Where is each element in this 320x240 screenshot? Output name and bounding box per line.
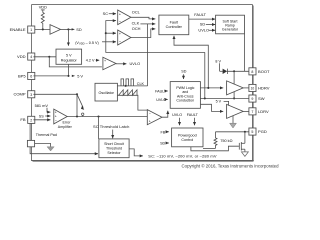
wire FB pin to error amp [33,119,50,121]
5V label to LDRV driver [216,100,229,106]
svg-text:FAULT: FAULT [155,89,167,93]
comparator OCH [118,30,131,45]
LDRV driver [227,104,244,118]
svg-text:Short Circuit: Short Circuit [104,142,124,146]
wire PWM logic to HDRV driver [200,87,223,89]
4.2V threshold label arrow [86,58,99,62]
svg-text:FAULT: FAULT [194,12,206,17]
svg-text:Powergood: Powergood [178,134,197,138]
CLK label wire to fault controller [132,21,156,26]
svg-text:+: + [119,32,121,36]
wire PWM logic to LDRV driver [200,104,223,111]
SC label arrow into OCL [103,11,116,16]
pin 7 LDRV [249,108,269,115]
wire ramp to PWM comparator [117,95,147,110]
pin 10 HDRV [249,84,270,91]
svg-text:4: 4 [30,55,32,59]
pin 4 VDD [17,53,35,60]
FAULT input stub to PWM logic [155,89,168,93]
svg-text:SD: SD [76,27,82,32]
node BOOT [233,70,235,72]
FB net down to selector [30,123,98,154]
UVLO stub into powergood [172,113,182,125]
svg-text:CLK: CLK [137,82,145,86]
svg-text:3: 3 [30,93,32,97]
wire regulator to BP5/5V rail [68,64,70,76]
svg-text:PGD: PGD [258,129,267,134]
SD input stub to PWM logic [181,70,186,79]
node 5V rail [67,75,69,77]
node HDRV fault tap [207,87,209,89]
SC output wire and label [129,149,217,159]
wire error amp output to PWM comparator [67,116,147,118]
svg-text:Amplifier: Amplifier [58,125,73,129]
resistor pull-up on ENABLE [41,13,44,30]
svg-text:FAULT: FAULT [187,113,199,117]
wire HDRV driver to pin [243,87,249,89]
svg-text:UVLO: UVLO [198,28,209,33]
outer border top [32,4,253,6]
pin 6 BP5 [18,72,35,79]
svg-text:SW: SW [258,96,265,101]
wire OCH to fault controller [131,29,155,38]
svg-text:COMP: COMP [13,92,25,97]
pin 2 FB [20,116,34,123]
CLK square wave symbol [121,79,134,86]
svg-text:SD: SD [200,22,206,27]
oscillator box [95,83,117,101]
wire resistor bottom to powergood [203,147,216,149]
svg-text:7: 7 [251,110,253,114]
FAULT output wire [189,12,215,19]
svg-text:SC: SC [103,11,109,16]
wire soft start to BOOT rail [244,34,246,72]
wire SW rail [200,97,249,99]
svg-text:Thermal Pad: Thermal Pad [36,133,57,137]
comparator UVLO [103,57,116,69]
thermal pad [27,133,57,147]
pin 5 PGD [249,128,267,135]
soft start ramp generator box [216,15,245,34]
svg-text:750 kΩ: 750 kΩ [220,139,232,143]
581 mV reference label [35,103,51,112]
wire SW riser up [204,52,206,98]
node PGD [244,131,246,133]
svg-text:5 V: 5 V [77,73,83,78]
(VVDD - 0.5 V) label [75,41,116,46]
node COMP [76,93,78,95]
svg-text:BOOT: BOOT [258,69,270,74]
CLK arrowhead on wire [125,85,128,87]
node VDD branch [48,56,50,58]
wire SD down to regulator [67,29,69,45]
FB stub into powergood [160,130,168,134]
wire buffer out to SD [61,28,72,30]
svg-text:VDD: VDD [39,5,47,10]
CLK wire from oscillator [117,85,147,87]
5V regulator box [56,49,82,64]
LDRV driver ground [230,116,237,128]
CLK riser from oscillator [147,24,149,86]
wire VDD pin to regulator [33,56,56,58]
svg-text:4.2 V: 4.2 V [86,58,95,62]
svg-text:8 V: 8 V [215,59,221,63]
outer border right [252,5,254,162]
svg-text:Generator: Generator [222,28,239,32]
wire comp line down to selector [98,117,100,139]
UVLO input stub to PWM logic [156,98,167,102]
node SD branch [67,28,69,30]
svg-text:BP5: BP5 [18,73,26,78]
pin 8 BOOT [249,68,270,75]
pin 9 SW [249,95,265,102]
UVLO output arrow and label [116,61,140,66]
svg-text:8: 8 [251,70,253,74]
switch contact circle [82,113,84,115]
svg-text:Selector: Selector [107,151,121,155]
svg-text:SC: –110 mV, –200 mV, or –280: SC: –110 mV, –200 mV, or –280 mV [148,153,217,158]
short circuit threshold selector box [99,139,129,158]
8V supply label [215,59,221,71]
node ENABLE/resistor junction [42,28,44,30]
node COMP/EA out [76,115,78,117]
svg-text:+: + [149,119,151,123]
svg-text:9: 9 [251,97,253,101]
wire VDD to UVLO comparator [49,57,102,67]
svg-text:581 mV: 581 mV [35,103,49,108]
svg-text:CLK: CLK [132,21,140,26]
svg-text:OCH: OCH [132,26,141,31]
svg-text:Control: Control [181,138,193,142]
svg-text:FB: FB [160,130,165,134]
svg-text:−: − [149,112,151,116]
mosfet pgd pulldown [239,132,245,152]
svg-text:UVLO: UVLO [156,98,166,102]
comparator OCL [118,10,131,25]
SW sense bus riser to comparators [106,21,205,53]
svg-text:UVLO: UVLO [172,113,182,117]
wire PGD rail [216,131,249,133]
svg-text:SC Threshold Latch: SC Threshold Latch [93,124,129,129]
bootstrap diode [220,69,228,74]
node latch tap on comp line [97,115,99,117]
svg-text:Conduction: Conduction [176,99,194,103]
5V rail label arrow [72,73,84,78]
svg-text:+: + [104,59,106,63]
svg-text:Oscillator: Oscillator [99,91,115,95]
SS input label [39,115,51,119]
FAULT stub into powergood [187,113,199,125]
wire COMP pin [33,93,77,95]
switch blade SC threshold sample [77,94,84,110]
PWM comparator [147,110,162,125]
wire SW bus into OCH+ [106,32,116,34]
wire LDRV driver to pin [243,110,249,112]
wire BP5 pin to 5V rail [33,75,68,77]
svg-text:5 V: 5 V [216,100,222,104]
buffer U-enable [50,25,61,35]
PWM logic box [170,82,200,109]
mosfet ground [241,152,248,157]
svg-text:LDRV: LDRV [258,109,269,114]
error amplifier [54,109,67,124]
svg-text:5 V: 5 V [66,53,72,57]
svg-text:UVLO: UVLO [130,61,141,66]
latch stub arrow into selector [112,130,114,139]
outer border bottom [32,160,254,162]
wire OCL to fault controller [131,17,155,19]
svg-text:2: 2 [30,118,32,122]
svg-text:ENABLE: ENABLE [10,27,26,32]
svg-text:10: 10 [251,86,255,90]
node driver-SW [233,97,235,99]
pin 1 ENABLE [10,26,35,33]
svg-text:SD: SD [181,70,186,74]
svg-text:Controller: Controller [166,25,183,29]
wire powergood to mosfet gate [191,146,239,151]
HDRV driver [227,81,244,95]
svg-text:Fault: Fault [170,21,179,25]
svg-text:Regulator: Regulator [61,58,78,62]
wire PWM comparator to PWM logic [162,111,168,118]
svg-text:OCL: OCL [132,9,141,14]
resistor 750k [214,132,233,149]
outer border left [31,5,33,162]
svg-text:SS: SS [39,115,44,119]
error amplifier label [58,121,73,129]
powergood control box [172,128,203,147]
thermal pad ground [35,144,55,152]
fault controller box [159,15,189,35]
svg-text:Threshold: Threshold [106,146,122,150]
SD net label arrow [72,27,82,32]
wire HDRV driver bottom to SW [233,92,235,99]
wire ENABLE pin to buffer [33,28,50,30]
UVLO output stub [198,28,215,33]
SD output stub [200,22,215,27]
fault controller feedback tap from HDRV [174,36,208,88]
svg-text:5: 5 [251,130,253,134]
wire BOOT to HDRV driver top [233,71,235,84]
svg-text:Copyright © 2016, Texas Instru: Copyright © 2016, Texas Instruments Inco… [182,163,280,168]
svg-text:6: 6 [30,75,32,79]
wire diode to BOOT pin [227,70,249,72]
svg-text:HDRV: HDRV [258,85,270,90]
svg-text:+: + [119,12,121,16]
svg-text:SD: SD [160,141,165,145]
svg-text:FB: FB [20,117,25,122]
switch contact stem [82,115,84,116]
node SW riser [204,97,206,99]
svg-text:1: 1 [30,28,32,32]
SD stub into powergood [160,141,169,145]
ramp sawtooth symbol [119,90,137,96]
wire COMP down to error amp output [76,94,78,116]
node SW bus to OCH [105,32,107,34]
VDD supply label [39,5,47,13]
svg-text:−: − [55,118,57,122]
svg-text:VDD: VDD [17,54,26,59]
pin 3 COMP [13,91,34,98]
